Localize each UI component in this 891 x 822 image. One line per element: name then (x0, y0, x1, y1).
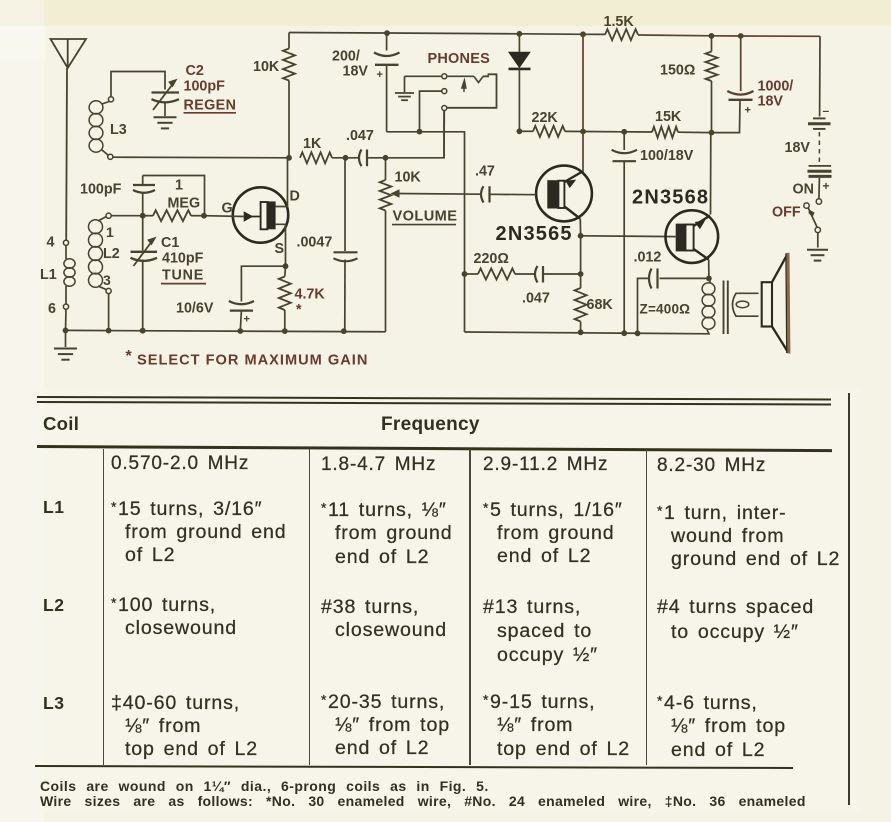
node 220 junction (462, 271, 468, 277)
label 10K (volume) (395, 170, 422, 186)
svg-text:*: * (126, 348, 133, 365)
wire Q1 emitter (579, 219, 581, 236)
potentiometer 10K VOLUME (380, 158, 481, 332)
resistor 68K (575, 274, 587, 332)
node bus/150ohm (709, 33, 715, 39)
resistor 1K (300, 152, 359, 163)
label 18V (battery) (785, 140, 811, 156)
label G (222, 201, 233, 217)
wire L2 top to grid node (111, 215, 143, 217)
wire top bus (289, 33, 820, 37)
svg-text:1K: 1K (303, 136, 322, 152)
ground (C2) (154, 102, 177, 129)
resistor 15K (583, 127, 712, 138)
node C1-bus junction (140, 328, 146, 334)
node 150-15K junction (709, 130, 715, 136)
label Z=400 (640, 302, 691, 317)
svg-text:L2: L2 (103, 246, 120, 262)
wire B- distribution (387, 132, 465, 332)
svg-text:.047: .047 (346, 128, 374, 144)
node 22K-collector (580, 129, 586, 135)
resistor 10K (drain load) (283, 33, 295, 158)
label S (275, 241, 285, 257)
svg-text:100pF: 100pF (184, 79, 226, 95)
node Q2 emitter junction (706, 276, 712, 282)
svg-text:18V: 18V (758, 94, 784, 110)
node bus/1000uF (738, 33, 744, 39)
wire ground bus right (465, 332, 710, 334)
svg-text:.47: .47 (475, 164, 495, 180)
wire Q2 collector (710, 133, 712, 215)
resistor R 1 MEG (143, 176, 205, 222)
wire FET gate (204, 215, 245, 218)
label 1 MEG (168, 178, 201, 212)
wire Q1 collector (582, 34, 584, 172)
svg-text:3: 3 (103, 272, 111, 288)
svg-text:.047: .047 (522, 291, 550, 307)
label 10/6V (176, 301, 214, 317)
node .012-bus (635, 330, 641, 336)
jack frame (447, 74, 497, 108)
wire L2 bottom to bus (108, 294, 110, 331)
node 6 terminal (48, 301, 69, 317)
svg-text:200/: 200/ (332, 49, 360, 65)
label 10K (253, 59, 280, 75)
label D (290, 189, 300, 205)
L3 bottom terminal (108, 154, 113, 159)
wire FET source (276, 224, 286, 266)
label .012 (634, 250, 662, 266)
label C2 value (184, 79, 226, 95)
svg-text:+: + (244, 314, 250, 326)
svg-text:PHONES: PHONES (428, 51, 491, 67)
svg-text:.0047: .0047 (297, 235, 333, 251)
node diode-22K (517, 128, 523, 134)
capacitor 100/18V (electrolytic) (612, 132, 637, 333)
L2 top terminal (pin 1) (106, 213, 114, 240)
transformer T1 core (724, 281, 728, 335)
wire FET drain (276, 158, 288, 207)
svg-text:+: + (377, 69, 383, 81)
jack ring contact (420, 89, 447, 132)
ground (switch) (807, 250, 828, 261)
label 22K (532, 110, 559, 126)
label 220 (474, 251, 509, 267)
capacitor .047 (coupling) (359, 150, 386, 167)
label 1000/18V (758, 79, 794, 110)
wire antenna to ground bus (65, 309, 68, 330)
svg-text:OFF: OFF (772, 205, 801, 221)
node L2-bus junction (106, 328, 112, 334)
label 100/18V (640, 148, 694, 164)
capacitor 100pF (grid) (133, 176, 155, 216)
L2 bottom terminal (pin 3) (103, 272, 111, 294)
node jack-ring junction (417, 129, 423, 135)
capacitor 10/6V (electrolytic) (229, 266, 286, 331)
wire top bus to battery (819, 36, 821, 116)
node 100uF-bus (621, 330, 627, 336)
wire Q2 emitter (708, 260, 710, 279)
svg-text:C1: C1 (161, 235, 179, 251)
svg-text:220Ω: 220Ω (474, 251, 509, 267)
svg-text:ON: ON (793, 182, 814, 198)
svg-text:15K: 15K (655, 109, 682, 125)
svg-text:2N3565: 2N3565 (496, 223, 573, 245)
svg-text:10K: 10K (395, 170, 422, 186)
svg-text:Z=400Ω: Z=400Ω (640, 302, 691, 317)
capacitor C2 (variable) (152, 80, 180, 111)
svg-text:18V: 18V (785, 140, 811, 156)
svg-text:1: 1 (106, 224, 114, 240)
wire L3 top to C2 (111, 72, 165, 97)
label 68K (587, 297, 614, 313)
svg-text:C2: C2 (186, 63, 204, 79)
label .47 (475, 164, 495, 180)
coil L3 (89, 101, 127, 155)
label 100pF (grid) (80, 182, 122, 198)
wire L3 bottom to FET drain wire (113, 156, 289, 159)
label 1.5K (604, 14, 635, 30)
capacitor .47 (481, 186, 490, 202)
jack tip contact (405, 74, 484, 92)
node emitter/220 (578, 271, 584, 277)
svg-text:+: + (823, 179, 830, 193)
node grid junction left (140, 213, 146, 219)
node 10/6V-bus (237, 328, 243, 334)
node bus/Q1 collector (580, 31, 586, 37)
node bus/diode (517, 31, 523, 37)
svg-text:10/6V: 10/6V (176, 301, 214, 317)
svg-text:REGEN: REGEN (184, 98, 237, 114)
svg-text:G: G (222, 201, 233, 217)
node pot top (383, 155, 389, 161)
label .047 (346, 128, 374, 144)
node 68K-bus (578, 329, 584, 335)
svg-text:1: 1 (175, 178, 183, 194)
svg-text:22K: 22K (532, 110, 559, 126)
label 15K (655, 109, 682, 125)
label 2N3565 (496, 223, 573, 245)
transformer T1 secondary / voice coil (733, 293, 759, 316)
svg-text:150Ω: 150Ω (660, 63, 695, 79)
transformer T1 primary (702, 278, 715, 333)
svg-text:68K: 68K (587, 297, 614, 313)
svg-text:10K: 10K (253, 59, 280, 75)
resistor 150 ohm (706, 36, 718, 133)
label OFF (772, 205, 801, 221)
label 150 (660, 63, 695, 79)
svg-text:18V: 18V (343, 64, 369, 80)
svg-text:L3: L3 (110, 122, 127, 138)
label .047 (emitter) (522, 291, 550, 307)
node 15K junction (621, 129, 627, 135)
label VOLUME (392, 209, 457, 225)
svg-text:2N3568: 2N3568 (632, 187, 709, 209)
svg-text:1.5K: 1.5K (604, 14, 635, 30)
capacitor .012 (638, 269, 709, 334)
wire Q1 base (490, 193, 537, 195)
svg-text:*: * (296, 302, 302, 318)
antenna (51, 39, 87, 240)
label 410pF (162, 251, 204, 267)
svg-text:100pF: 100pF (80, 182, 122, 198)
label TUNE (161, 268, 206, 284)
node .0047 tap (343, 155, 349, 161)
node .0047-bus junction (341, 328, 347, 334)
label C2 (186, 63, 204, 79)
capacitor .047 (emitter) (535, 266, 581, 283)
note select for maximum gain (126, 348, 369, 369)
svg-text:–: – (823, 104, 830, 118)
svg-text:1000/: 1000/ (758, 79, 794, 95)
svg-text:.012: .012 (634, 250, 662, 266)
svg-text:4.7K: 4.7K (295, 287, 326, 303)
label 2N3568 (632, 187, 709, 209)
ground (left, main) (54, 328, 77, 360)
resistor 4.7K (source) (279, 266, 291, 331)
svg-text:TUNE: TUNE (162, 268, 204, 284)
resistor 220 ohm (465, 269, 536, 280)
svg-text:D: D (290, 189, 300, 205)
capacitor 200/18V (electrolytic) (374, 33, 400, 132)
diode detector (508, 34, 531, 132)
svg-text:S: S (275, 241, 285, 257)
coil L2 (89, 217, 120, 290)
node source junction (283, 263, 289, 269)
svg-text:6: 6 (48, 301, 56, 317)
node 4.7K-bus (282, 328, 288, 334)
capacitor 1000/18V (electrolytic) (712, 36, 754, 133)
svg-text:MEG: MEG (168, 196, 201, 212)
switch ON-OFF (804, 199, 822, 248)
label 4.7K (295, 287, 326, 303)
capacitor .0047 (334, 158, 358, 331)
label REGEN (184, 98, 237, 114)
svg-text:SELECT FOR MAXIMUM GAIN: SELECT FOR MAXIMUM GAIN (137, 353, 368, 369)
node bus/200uF (384, 30, 390, 36)
wire to jack contact (386, 111, 445, 158)
label ON (793, 182, 814, 198)
label .0047 (297, 235, 333, 251)
label select-star (296, 302, 302, 318)
node grid junction right (201, 213, 207, 219)
node Q1 emitter junction (578, 233, 584, 239)
wire ground bus left (66, 330, 386, 331)
L3 top terminal (108, 97, 113, 102)
battery 18V (808, 104, 832, 199)
svg-text:VOLUME: VOLUME (393, 209, 458, 225)
wire Q1-Q2 base (581, 235, 676, 238)
capacitor C1 (variable) (131, 216, 158, 331)
transistor Q1 2N3565 (536, 166, 592, 222)
label PHONES (428, 51, 491, 67)
svg-text:L1: L1 (40, 267, 57, 283)
label 200/18V (332, 49, 383, 82)
svg-text:4: 4 (47, 235, 55, 251)
speaker (762, 253, 789, 354)
node drain junction (286, 155, 292, 161)
label C1 (161, 235, 179, 251)
coil L1 (40, 245, 75, 304)
jack switched contact (442, 106, 447, 158)
wire emitter down (580, 236, 582, 274)
resistor 22K (519, 126, 583, 137)
svg-text:100/18V: 100/18V (640, 148, 694, 164)
svg-text:410pF: 410pF (162, 251, 204, 267)
node 4 terminal (47, 235, 69, 251)
resistor 1.5K (605, 29, 638, 40)
ground (jack) (395, 76, 414, 100)
transistor Q2 2N3568 (666, 210, 719, 263)
svg-text:+: + (745, 105, 751, 117)
label 1K (303, 136, 322, 152)
op FET detector transistor (233, 187, 288, 242)
